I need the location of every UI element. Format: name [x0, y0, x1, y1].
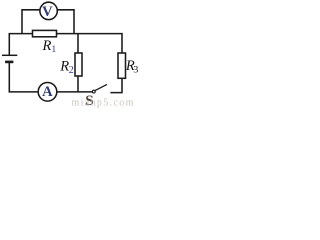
svg-text:1: 1 [51, 44, 56, 55]
wire main node right (R1 to R3 branch) [57, 34, 123, 53]
wire ammeter to switch pivot [57, 91, 93, 93]
wire main node left (battery to R1) [9, 34, 32, 55]
svg-text:R: R [42, 38, 52, 54]
wire battery to bottom-left corner and ammeter [9, 63, 38, 92]
ammeter U2 circle [38, 83, 57, 102]
wire R2 branch bottom [77, 76, 79, 92]
svg-text:A: A [42, 84, 53, 100]
wire R2 branch top [77, 34, 79, 53]
svg-text:V: V [42, 4, 53, 20]
wire top-right horizontal (V circle to right corner, down to main node) [57, 10, 74, 34]
svg-text:mianp5.com: mianp5.com [72, 98, 135, 109]
switch S pivot circle [92, 90, 95, 93]
wire top-left horizontal (voltmeter loop to V circle) [22, 10, 40, 34]
resistor R2 box [75, 53, 82, 76]
battery B1 long plate [2, 54, 17, 56]
svg-text:2: 2 [69, 65, 74, 76]
resistor R1 box [33, 30, 57, 36]
resistor R3 box [118, 53, 126, 78]
svg-text:R: R [59, 59, 69, 75]
svg-text:3: 3 [133, 65, 138, 76]
wire R3 branch bottom to switch right contact [110, 78, 122, 92]
battery B1 short plate [5, 61, 13, 64]
voltmeter U1 circle [40, 2, 57, 19]
switch S blade [95, 84, 107, 90]
